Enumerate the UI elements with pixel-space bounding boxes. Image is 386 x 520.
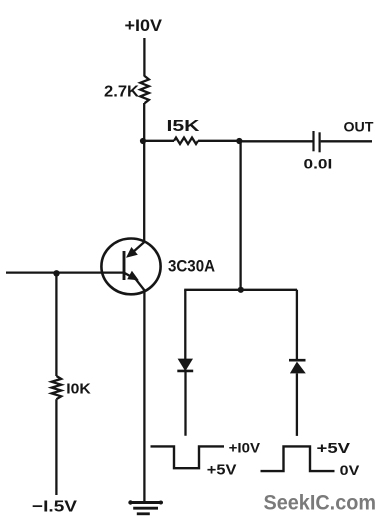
pulse source 2 waveform <box>261 440 361 478</box>
diode D1 (cathode down) <box>177 359 193 372</box>
svg-text:+5V: +5V <box>207 461 237 478</box>
wire 10K to -1.5V <box>55 399 57 495</box>
resistor 10K <box>52 376 91 399</box>
net label OUT <box>344 119 374 135</box>
svg-text:+I0V: +I0V <box>229 440 261 456</box>
wire base (left rail) <box>6 271 124 273</box>
wire node B down to node C <box>239 141 241 290</box>
svg-text:SeekIC.com: SeekIC.com <box>264 491 377 515</box>
wire 2.7K to collector node <box>143 103 145 141</box>
resistor 2.7K <box>104 76 149 103</box>
wire right branch down to diode D2 <box>296 290 298 360</box>
wire node A to 15K <box>143 140 174 142</box>
svg-text:I0K: I0K <box>66 380 91 397</box>
svg-text:0.0I: 0.0I <box>304 155 333 171</box>
wire capacitor to OUT <box>321 140 372 142</box>
wire diode D2 to pulse input <box>296 373 298 436</box>
transistor Q1 3C30A <box>101 239 215 295</box>
wire +10V to resistor 2.7K <box>143 38 145 77</box>
svg-text:+I0V: +I0V <box>125 17 163 35</box>
svg-text:−I.5V: −I.5V <box>32 499 77 516</box>
wire 15K to node B <box>198 140 239 142</box>
wire emitter to ground <box>143 291 145 503</box>
logo SeekIC.com <box>264 491 377 515</box>
svg-text:+5V: +5V <box>317 440 351 457</box>
svg-text:3C30A: 3C30A <box>168 258 215 276</box>
diode D2 (cathode up) <box>289 360 306 373</box>
wire node D down to 10K <box>55 273 57 376</box>
svg-text:OUT: OUT <box>344 119 374 135</box>
svg-text:I5K: I5K <box>167 118 201 135</box>
wire diode D1 to pulse input <box>184 372 186 436</box>
svg-text:0V: 0V <box>340 462 360 478</box>
node A (2.7K / 15K junction) <box>140 138 146 144</box>
wire node A to transistor top lead <box>143 141 145 243</box>
capacitor 0.01 <box>304 131 333 171</box>
power label +10V <box>125 17 163 35</box>
pulse source 1 waveform <box>151 440 261 479</box>
ground <box>128 500 163 514</box>
wire node B to capacitor <box>239 140 312 142</box>
power label -1.5V <box>32 499 77 516</box>
node D (base / 10K junction) <box>53 270 59 276</box>
wire left branch down to diode D1 <box>184 290 186 359</box>
node B (15K / cap / diode branch junction) <box>236 138 242 144</box>
wire node C horizontal to both diode branches <box>184 289 297 291</box>
resistor 15K <box>167 118 201 144</box>
node C (diode branch junction) <box>238 287 244 293</box>
svg-text:2.7K: 2.7K <box>104 84 139 101</box>
